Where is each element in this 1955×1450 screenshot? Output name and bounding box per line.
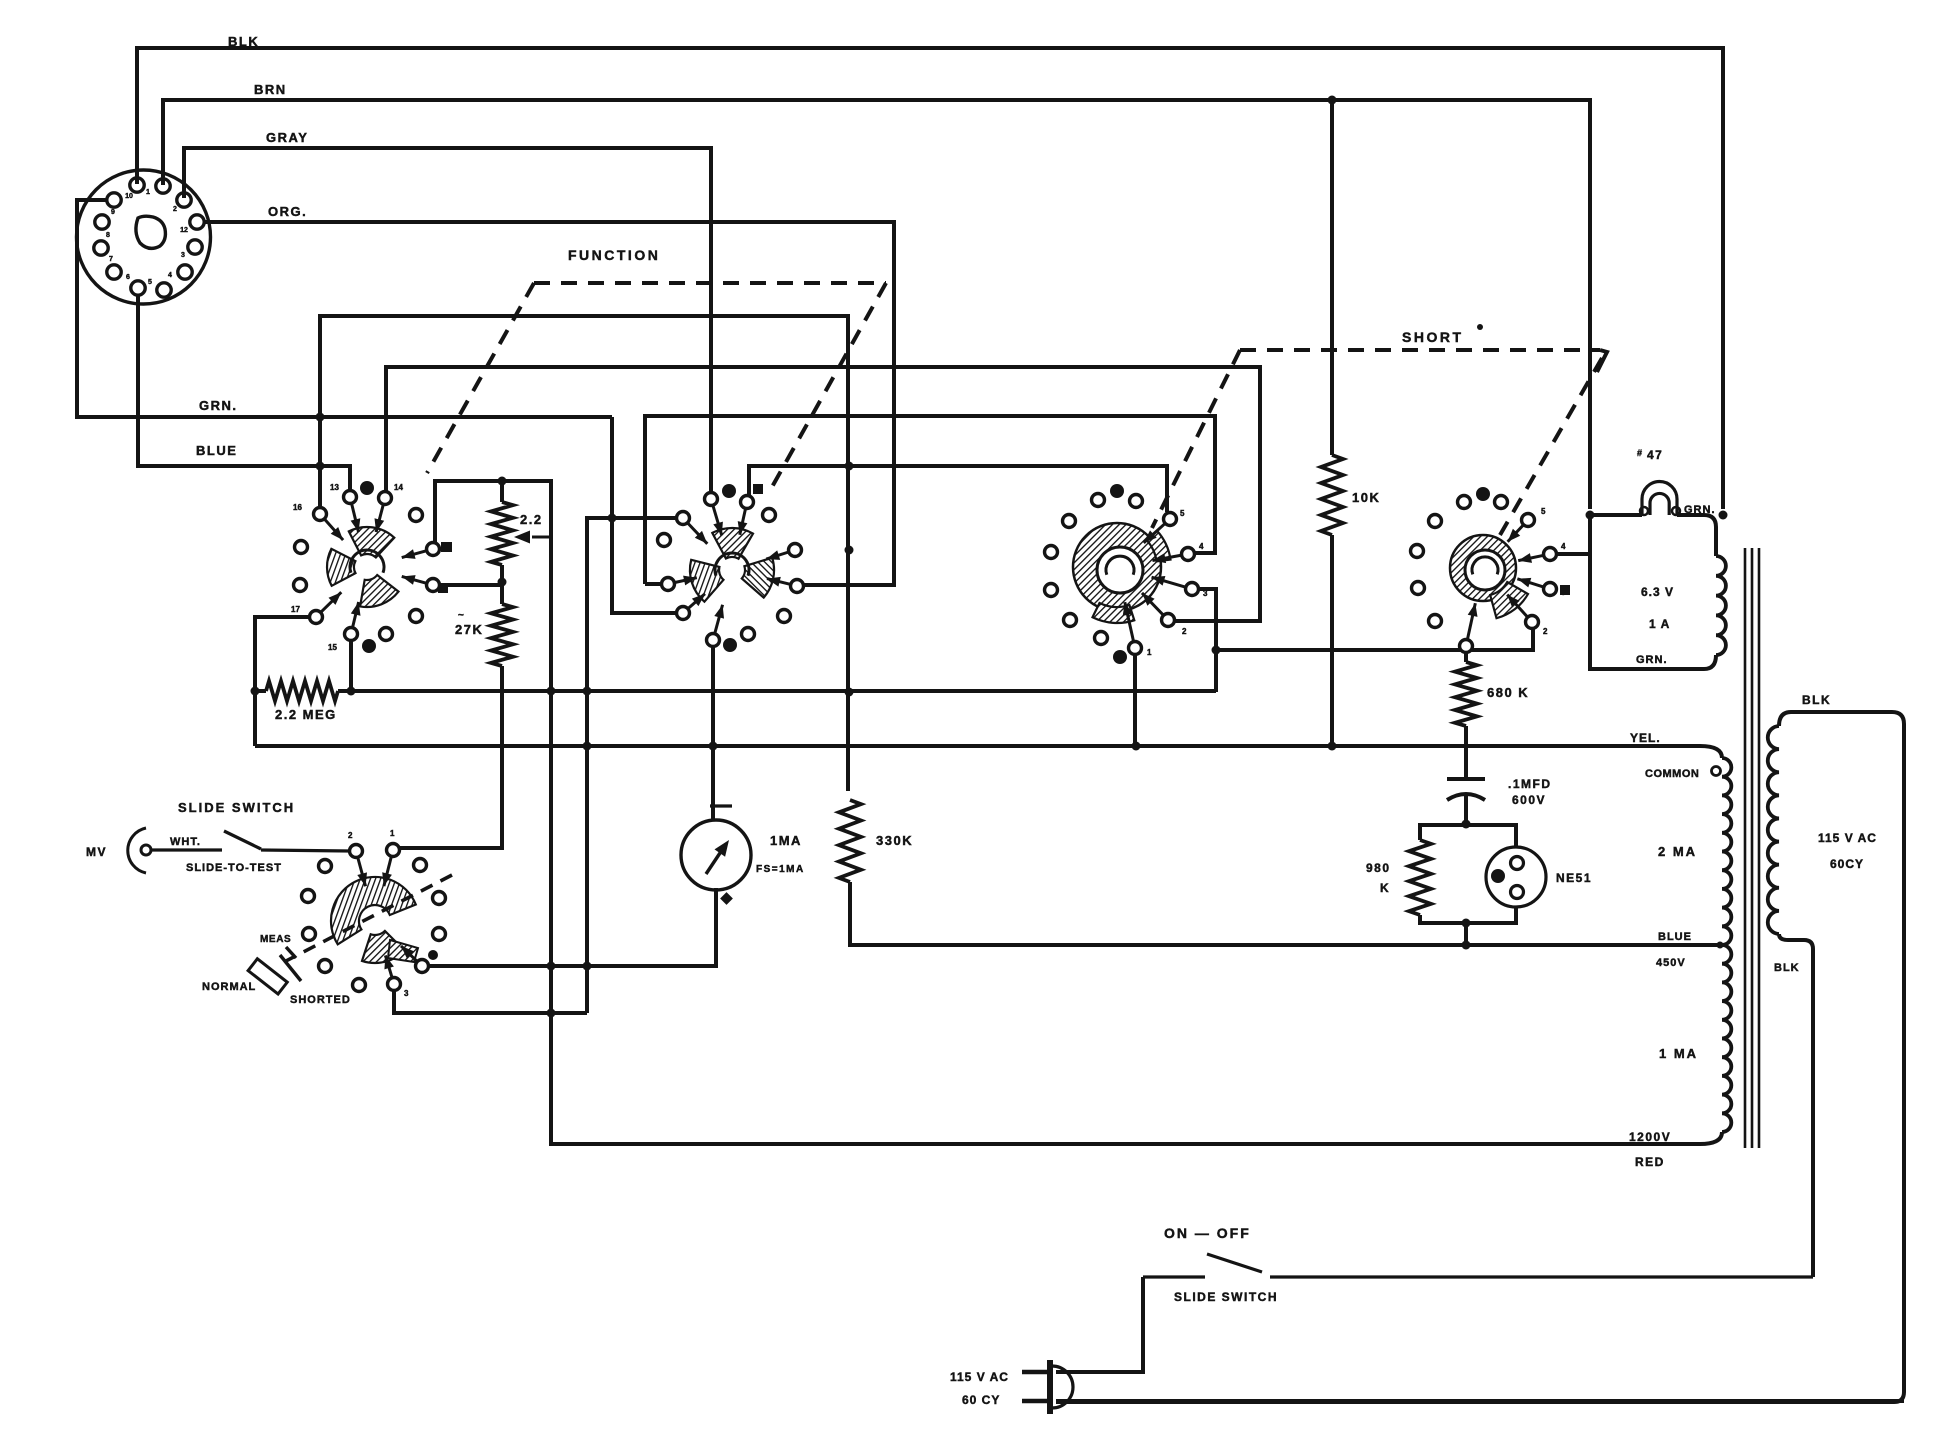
- svg-text:450V: 450V: [1656, 957, 1686, 969]
- label BLK primary bottom: [1774, 962, 1800, 974]
- svg-text:10K: 10K: [1352, 490, 1380, 505]
- label GRN right of lamp: [1684, 504, 1716, 516]
- transformer secondary winding: [1700, 746, 1731, 1144]
- svg-text:115 V AC: 115 V AC: [950, 1370, 1009, 1384]
- svg-text:#: #: [1637, 448, 1642, 458]
- label 60 CY plug: [962, 1393, 1000, 1407]
- switch E lever NORMAL: [248, 947, 301, 994]
- label SHORT: [1402, 324, 1483, 345]
- meter 1MA: [681, 820, 751, 905]
- wire GRAY (socket pin 3 to switch B contact 13): [184, 148, 711, 492]
- socket pin numbers: [106, 189, 188, 286]
- svg-text:8: 8: [106, 232, 110, 239]
- wire ORG (socket pin 4 to switch B contact 11): [203, 222, 894, 585]
- svg-text:9: 9: [111, 209, 115, 216]
- svg-text:BRN: BRN: [254, 82, 287, 97]
- switch C contact labels: [1147, 509, 1208, 657]
- label MEAS: [260, 934, 291, 945]
- rotary switch A rotor: [327, 527, 398, 607]
- neon lamp NE51: [1466, 825, 1546, 923]
- potentiometer 2.2 MEG: [491, 481, 513, 582]
- svg-text:GRN.: GRN.: [199, 398, 238, 413]
- svg-text:4: 4: [1199, 542, 1204, 551]
- svg-text:7: 7: [109, 256, 113, 263]
- switch D contact labels: [1541, 507, 1566, 636]
- wire switch C bottom contact to YEL: [1133, 655, 1137, 746]
- svg-text:15: 15: [328, 643, 337, 652]
- svg-text:COMMON: COMMON: [1645, 768, 1699, 780]
- svg-text:4: 4: [1561, 542, 1566, 551]
- label WHT.: [170, 836, 201, 848]
- label NE51: [1556, 871, 1592, 885]
- wire BLK (socket pin 1 to pilot lamp): [137, 48, 1723, 509]
- label SLIDE SWITCH bottom: [1174, 1290, 1278, 1304]
- label BRN: [254, 82, 287, 97]
- label YEL.: [1630, 731, 1661, 745]
- svg-text:6: 6: [126, 274, 130, 281]
- svg-text:SLIDE SWITCH: SLIDE SWITCH: [1174, 1290, 1278, 1304]
- label ON-OFF: [1164, 1225, 1251, 1241]
- wire switch A contact 16 bus: [320, 316, 848, 791]
- svg-text:FS=1MA: FS=1MA: [756, 864, 805, 875]
- rotary switch B rotor: [690, 528, 774, 602]
- svg-text:BLK: BLK: [228, 34, 259, 49]
- rotary switch A contacts: [294, 481, 440, 653]
- label SLIDE SWITCH: [178, 800, 295, 815]
- svg-text:YEL.: YEL.: [1630, 731, 1661, 745]
- resistor 980K branch: [1409, 825, 1466, 923]
- switch D solder square: [1560, 585, 1570, 595]
- svg-text:SLIDE SWITCH: SLIDE SWITCH: [178, 800, 295, 815]
- label BLK primary top: [1802, 693, 1831, 707]
- label MV: [86, 845, 107, 859]
- label GRAY: [266, 130, 308, 145]
- wire contact17A to YEL corner: [255, 617, 310, 746]
- svg-text:17: 17: [291, 605, 300, 614]
- svg-text:2.2: 2.2: [520, 512, 543, 527]
- node contact12B wire junction: [845, 462, 854, 471]
- node bus316-BLUE crossing dot: [316, 462, 325, 471]
- label 10K: [1352, 490, 1380, 505]
- wire switch B contact 8 branch: [587, 518, 676, 1013]
- slide switch blade: [151, 831, 350, 851]
- label 980 K: [1366, 861, 1391, 895]
- resistor 680K: [1455, 662, 1477, 779]
- svg-text:BLUE: BLUE: [196, 443, 237, 458]
- AC plug: [1022, 1360, 1073, 1414]
- switch B solder square: [753, 484, 763, 494]
- wire BLUE (socket pin to switch A contact 13): [138, 294, 350, 491]
- label BLK: [228, 34, 259, 49]
- wire switch B bottom contact to meter: [711, 647, 715, 820]
- wire meter top tick: [710, 804, 732, 807]
- svg-text:12: 12: [180, 227, 188, 234]
- node GRN-contact8 crossing dot: [608, 514, 617, 523]
- svg-text:1200V: 1200V: [1629, 1130, 1671, 1144]
- label 680 K: [1487, 685, 1529, 700]
- label .1MFD: [1508, 777, 1552, 807]
- secondary tap COMMON: [1645, 767, 1721, 781]
- resistor 27K: [399, 582, 513, 848]
- svg-text:2.2 MEG: 2.2 MEG: [275, 707, 337, 722]
- rotary switch C contacts: [1045, 484, 1199, 664]
- node 10K-BRN junction: [1328, 96, 1337, 105]
- node meter wire junction x587: [583, 962, 592, 971]
- node contact3C branch junction: [1212, 646, 1221, 655]
- svg-text:2: 2: [173, 206, 177, 213]
- svg-text:3: 3: [181, 252, 185, 259]
- node neon bottom junction: [1462, 919, 1471, 928]
- label 115V AC: [1818, 831, 1877, 845]
- wire neon to BLUE wire: [1462, 923, 1471, 950]
- svg-text:13: 13: [330, 483, 339, 492]
- transformer core: [1745, 548, 1759, 1148]
- label 1A: [1649, 617, 1670, 631]
- label 1200V: [1629, 1130, 1671, 1144]
- capacitor .1MFD 600V: [1447, 779, 1485, 826]
- svg-text:2: 2: [1182, 627, 1187, 636]
- wire switch E contact 3 branch: [394, 991, 587, 1013]
- pilot lamp #47: [1640, 482, 1680, 516]
- svg-text:5: 5: [1180, 509, 1185, 518]
- svg-text:FUNCTION: FUNCTION: [568, 247, 660, 263]
- svg-text:SHORT: SHORT: [1402, 329, 1464, 345]
- node cap-neon junction: [1462, 820, 1471, 829]
- rotary switch D rotor: [1450, 535, 1528, 618]
- resistor 2.2 MEG: [266, 681, 338, 701]
- transformer 6.3V winding box: [1590, 515, 1726, 669]
- node YEL junction x1332: [1328, 742, 1337, 751]
- node lamp left junction: [1586, 511, 1595, 520]
- wire bus 691: [255, 689, 1216, 693]
- label NORMAL: [202, 981, 256, 993]
- svg-text:ON — OFF: ON — OFF: [1164, 1225, 1251, 1241]
- label BLUE: [196, 443, 237, 458]
- node YEL junction x1136: [1132, 742, 1141, 751]
- svg-text:GRN.: GRN.: [1636, 654, 1668, 666]
- svg-text:.1MFD: .1MFD: [1508, 777, 1552, 791]
- svg-text:1: 1: [146, 189, 150, 196]
- svg-text:2 MA: 2 MA: [1658, 844, 1697, 859]
- svg-text:1MA: 1MA: [770, 833, 802, 848]
- node bus691 junction x587: [583, 687, 592, 696]
- rotary switch C rotor: [1073, 523, 1171, 623]
- label 2.2: [520, 512, 543, 527]
- ON-OFF slide switch: [1143, 1254, 1813, 1277]
- resistor 330K: [839, 800, 1724, 949]
- svg-text:SLIDE-TO-TEST: SLIDE-TO-TEST: [186, 862, 282, 874]
- wire switch B contact 12 to switch C contact 5: [749, 466, 1167, 512]
- node bus691 junction x849: [845, 688, 854, 697]
- jack J1: [128, 828, 151, 873]
- node bus316-GRN crossing dot: [316, 413, 325, 422]
- wire to switch D contact 2: [1216, 629, 1533, 650]
- svg-text:115 V AC: 115 V AC: [1818, 831, 1877, 845]
- wire contact15A stub: [349, 641, 353, 691]
- label SHORTED: [290, 994, 351, 1006]
- svg-text:330K: 330K: [876, 833, 913, 848]
- dashed SHORT linkage: [1152, 350, 1607, 535]
- svg-text:1: 1: [1147, 648, 1152, 657]
- svg-text:MV: MV: [86, 845, 107, 859]
- label FUNCTION: [568, 247, 660, 263]
- svg-text:4: 4: [168, 272, 172, 279]
- svg-text:GRAY: GRAY: [266, 130, 308, 145]
- node 27K top junction: [498, 578, 507, 587]
- rotary switch D contacts: [1411, 487, 1557, 653]
- wire switch A contact 14 to switch C contact 2: [386, 367, 1260, 621]
- svg-text:1 A: 1 A: [1649, 617, 1670, 631]
- svg-text:1 MA: 1 MA: [1659, 1046, 1698, 1061]
- node YEL junction x713: [709, 742, 718, 751]
- rotary switch B contacts: [658, 484, 804, 652]
- wire BLUE 450V tap: [1656, 931, 1692, 969]
- switch A contact labels: [291, 483, 403, 652]
- label 60CY: [1830, 857, 1864, 871]
- wire switch D contact 4 to 6.3V winding: [1557, 552, 1590, 556]
- svg-text:2: 2: [348, 831, 353, 840]
- label 2 MA: [1658, 844, 1697, 859]
- dashed switch E linkage: [284, 875, 452, 962]
- wire contact A to 27K top: [440, 583, 502, 587]
- svg-text:NORMAL: NORMAL: [202, 981, 256, 993]
- svg-text:60CY: 60CY: [1830, 857, 1864, 871]
- svg-text:5: 5: [1541, 507, 1546, 516]
- node contact10B wire junction: [845, 546, 854, 555]
- label 115 V AC plug: [950, 1370, 1009, 1384]
- svg-text:SHORTED: SHORTED: [290, 994, 351, 1006]
- pot wiper arrow: [514, 531, 551, 544]
- rotary switch E rotor: [331, 877, 418, 963]
- label 2.2 MEG: [275, 707, 337, 722]
- svg-text:MEAS: MEAS: [260, 934, 291, 945]
- svg-text:BLUE: BLUE: [1658, 931, 1692, 943]
- svg-text:K: K: [1380, 881, 1390, 895]
- transformer primary winding 115V: [1056, 712, 1904, 1402]
- label SLIDE-TO-TEST: [186, 862, 282, 874]
- label FS=1MA: [756, 864, 805, 875]
- wire switch B contact 6 to switch C contact 4: [645, 416, 1215, 584]
- wire switch D bottom contact: [1464, 653, 1468, 662]
- svg-text:600V: 600V: [1512, 793, 1546, 807]
- wire BRN (socket pin 2 to 6.3V winding): [163, 100, 1590, 509]
- svg-text:680 K: 680 K: [1487, 685, 1529, 700]
- svg-text:~: ~: [458, 610, 465, 621]
- svg-text:ORG.: ORG.: [268, 204, 307, 219]
- label GRN bottom: [1636, 654, 1668, 666]
- svg-text:47: 47: [1647, 448, 1663, 462]
- svg-text:980: 980: [1366, 861, 1391, 875]
- label #47: [1637, 448, 1663, 462]
- label RED: [1635, 1155, 1665, 1169]
- wire plug to switch: [1056, 1277, 1143, 1372]
- svg-text:WHT.: WHT.: [170, 836, 201, 848]
- wire meter bottom to switch E contact 4: [429, 888, 716, 966]
- node 2.2MEG right junction: [347, 687, 356, 696]
- svg-text:14: 14: [394, 483, 403, 492]
- svg-text:2: 2: [1543, 627, 1548, 636]
- svg-text:RED: RED: [1635, 1155, 1665, 1169]
- svg-text:5: 5: [148, 279, 152, 286]
- svg-text:1: 1: [390, 829, 395, 838]
- node 2.2MEG left junction: [251, 687, 260, 696]
- switch E contact labels: [348, 829, 437, 998]
- label ORG.: [268, 204, 307, 219]
- tube socket V1: [77, 170, 211, 304]
- wire switch C contact 3 branch: [1199, 589, 1216, 692]
- wire YEL bus: [255, 744, 1700, 748]
- label 330K: [876, 833, 913, 848]
- node pot top junction: [498, 477, 507, 486]
- node meter wire junction x551: [547, 962, 556, 971]
- label 27K: [455, 610, 483, 637]
- rotary switch E contacts: [302, 844, 446, 992]
- wire plug bottom to primary: [1056, 1399, 1904, 1403]
- label GRN.: [199, 398, 238, 413]
- node YEL junction x587: [583, 742, 592, 751]
- svg-text:BLK: BLK: [1774, 962, 1800, 974]
- node lamp right junction: [1719, 511, 1728, 520]
- svg-text:BLK: BLK: [1802, 693, 1831, 707]
- svg-text:16: 16: [293, 503, 302, 512]
- label 6.3V: [1641, 585, 1674, 599]
- wire GRN (socket pin to switch B contact 7): [77, 200, 676, 613]
- dashed FUNCTION linkage: [427, 283, 886, 487]
- node contact3E wire junction x551: [547, 1009, 556, 1018]
- svg-text:10: 10: [125, 193, 133, 200]
- svg-text:60 CY: 60 CY: [962, 1393, 1000, 1407]
- svg-text:4: 4: [432, 951, 437, 960]
- node bus691 junction x551: [547, 687, 556, 696]
- resistor 10K: [1321, 100, 1343, 746]
- svg-text:27K: 27K: [455, 622, 483, 637]
- svg-text:NE51: NE51: [1556, 871, 1592, 885]
- label 1 MA: [1659, 1046, 1698, 1061]
- svg-text:3: 3: [404, 989, 409, 998]
- label 1MA: [770, 833, 802, 848]
- switch A solder squares: [438, 542, 452, 593]
- wire contact15A riser to pot top: [435, 481, 1700, 1144]
- svg-text:6.3 V: 6.3 V: [1641, 585, 1674, 599]
